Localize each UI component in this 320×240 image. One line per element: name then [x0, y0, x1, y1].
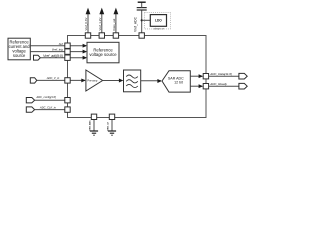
wire VSS 2 down [111, 118, 113, 131]
wire ADC_Ready external [209, 85, 239, 87]
block U4 LDO [150, 15, 166, 27]
pin pad Vref_ADC [139, 33, 144, 38]
svg-text:Vref_adj(9:0): Vref_adj(9:0) [43, 54, 63, 58]
dashed domain box around LDO [145, 12, 171, 29]
ADC U1 SAR ADC 12 bit [162, 71, 190, 92]
arrowhead buf [83, 44, 87, 48]
svg-text:VSS_ref: VSS_ref [108, 122, 110, 131]
pin pad Vref output 1 [85, 33, 90, 38]
svg-text:ADC_Data[11:0]: ADC_Data[11:0] [209, 72, 232, 76]
arrowhead Vref_trig [83, 50, 87, 54]
wire ADC_config [35, 99, 68, 101]
arrowhead into ADC [157, 79, 161, 83]
op-amp U5 Pre-amp [86, 70, 103, 91]
pin pad Vref_adj [65, 55, 70, 60]
pin pad buf [65, 43, 70, 48]
block U6 decimation filter [124, 70, 141, 92]
pin pad ADC_config [65, 98, 70, 103]
arrowhead ADC_Ready at pad [199, 84, 203, 88]
svg-text:SAR ADC: SAR ADC [168, 76, 184, 80]
wire VSS 1 down [93, 118, 95, 131]
pin pad ADC_Data [203, 74, 208, 79]
pin pad ADC_Ready [203, 84, 208, 89]
port ADC_V_in input tag [30, 78, 37, 83]
svg-text:Vref_ADC: Vref_ADC [133, 16, 137, 32]
arrowhead Vref output 3 [114, 8, 119, 15]
wire filter to ADC [141, 80, 161, 82]
capacitor C1 [137, 8, 147, 10]
wire Vref_trig [30, 51, 86, 53]
block U3 Reference voltage source [87, 42, 119, 63]
svg-text:12 bit: 12 bit [174, 81, 183, 85]
ground top [138, 1, 146, 3]
wire ADC_Ready [190, 85, 202, 87]
wire ADC_V_in [37, 79, 85, 81]
svg-text:source: source [13, 53, 26, 58]
wire Vref_adj [40, 57, 86, 59]
wire ADC_Data external [209, 75, 239, 77]
pin pad Vref_trig [65, 49, 70, 54]
wire preamp to filter [103, 80, 123, 82]
svg-text:Vref_1.2V: Vref_1.2V [98, 18, 102, 31]
port ADC_Data output tag [239, 73, 247, 79]
port ADC_Ready output tag [239, 83, 247, 89]
block U2 Reference current and voltage source [8, 38, 30, 60]
pin pad ADC_CLK_in [65, 107, 70, 112]
wire Vref_ADC vertical [141, 10, 143, 35]
port ADC_config input tag [26, 98, 34, 103]
pin pad Vref output 3 [113, 33, 118, 38]
arrowhead ADC_Data at pad [199, 74, 203, 78]
arrowhead ADC_V_in [81, 78, 85, 82]
svg-text:always on: always on [153, 27, 164, 30]
port Vref_adj input tag [34, 55, 41, 60]
svg-text:Ibias_out: Ibias_out [112, 18, 116, 30]
wire Vref output 1 up [87, 14, 89, 36]
svg-text:ADC_Ready: ADC_Ready [209, 82, 227, 86]
svg-text:voltage source: voltage source [89, 52, 117, 57]
pin pad Vref output 2 [99, 33, 104, 38]
arrowhead Vref output 1 [86, 8, 91, 15]
svg-text:LDO: LDO [155, 19, 162, 23]
svg-text:Vref_0.6V: Vref_0.6V [84, 18, 88, 31]
arrowhead Vref output 2 [99, 8, 104, 15]
pin pad VSS 1 [91, 114, 96, 119]
arrowhead Vref_adj [83, 56, 87, 60]
arrowhead into filter [119, 79, 123, 83]
junction dot Vref_ADC/LDO [141, 19, 143, 21]
wire buf [30, 45, 86, 47]
wire ADC_Data [190, 75, 202, 77]
wire Vref output 3 up [115, 14, 117, 36]
svg-text:Vref_trig: Vref_trig [52, 48, 63, 52]
ground GND2 [108, 131, 116, 135]
wire LDO output [142, 19, 151, 21]
wire Vref output 2 up [101, 14, 103, 36]
ground GND1 [90, 131, 98, 135]
wire ADC_CLK_in [35, 109, 68, 111]
main ADC block boundary [68, 36, 207, 118]
wire cap to ground [141, 2, 143, 7]
pin pad ADC_V_in [65, 78, 70, 83]
pin pad VSS 2 [109, 114, 114, 119]
port ADC_CLK_in input tag [26, 107, 34, 112]
